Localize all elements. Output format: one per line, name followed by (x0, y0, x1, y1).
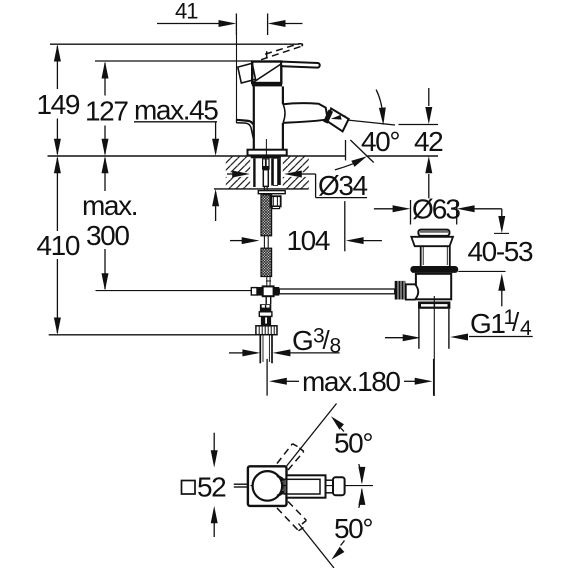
svg-text:149: 149 (37, 89, 80, 120)
dimension 104 (230, 140, 382, 251)
dashed lever down position (277, 502, 306, 531)
ball circle (253, 471, 283, 501)
reference line top (y44) (50, 43, 299, 45)
lower arc (335, 164, 353, 170)
centerline (433, 296, 435, 396)
spout end black band (325, 111, 330, 123)
svg-text:Ø34: Ø34 (318, 170, 368, 201)
T-fitting (251, 286, 279, 304)
washer under counter (258, 191, 285, 194)
left bracket (spray hook) (237, 120, 254, 125)
drain: Ø63 dimension (374, 200, 502, 225)
base flange (248, 150, 287, 156)
dimension 149 (54, 44, 61, 156)
svg-text:42: 42 (414, 126, 443, 157)
faucet handle cap (238, 44, 320, 87)
max300 bottom reference line (96, 290, 253, 292)
dimension max.300 (102, 156, 109, 291)
spray nozzle (327, 109, 349, 132)
reference line handle top (y61) (95, 60, 252, 62)
svg-text:40°: 40° (361, 126, 399, 157)
svg-text:40-53: 40-53 (468, 236, 533, 267)
flange (411, 237, 453, 246)
410 bottom reference line (49, 334, 257, 336)
pop-up linkage rod (279, 289, 394, 294)
slip nut (418, 302, 450, 309)
lever bar (281, 62, 320, 68)
svg-text:max.180: max.180 (302, 366, 400, 397)
gasket under base (251, 155, 281, 158)
dimension 127 (102, 61, 109, 156)
handle black band (252, 83, 282, 86)
mounting surface line (y156) (48, 155, 346, 157)
socket wedges (276, 476, 284, 482)
body centerline (265, 139, 267, 156)
dimension 40-53 (458, 216, 509, 306)
left black bar (253, 158, 255, 187)
side port (406, 284, 418, 299)
dimension max.45 (134, 122, 219, 221)
supply pipe G3/8 (259, 335, 261, 364)
centerline (251, 485, 374, 487)
40 degree annotation (335, 90, 395, 170)
square symbol (182, 481, 196, 495)
dimension 41 (top) (157, 14, 303, 36)
neck (420, 246, 422, 266)
svg-text:8: 8 (330, 335, 341, 358)
label G1 1/4 (385, 334, 533, 342)
knurled knob (395, 281, 406, 300)
lower body (416, 274, 451, 300)
svg-text:50°: 50° (334, 428, 372, 459)
upper arc (376, 90, 383, 120)
spray tab left (234, 483, 248, 485)
svg-text:4: 4 (520, 317, 532, 340)
dimension hole Ø34 (227, 171, 367, 198)
dashed lever up position (277, 444, 304, 470)
lever (top view) (284, 475, 345, 497)
svg-text:/: / (512, 307, 520, 337)
handle tilted-left position (238, 63, 256, 83)
svg-text:410: 410 (37, 230, 80, 261)
spout (283, 103, 328, 123)
50 deg upper (287, 404, 366, 485)
svg-text:50°: 50° (334, 513, 372, 544)
svg-text:max.: max. (82, 190, 137, 221)
pop-up drain assembly (395, 230, 458, 396)
flexible hose (261, 195, 272, 287)
extension line from 41 tick (236, 35, 238, 119)
svg-text:G1: G1 (470, 308, 505, 339)
svg-text:127: 127 (85, 96, 128, 127)
svg-text:104: 104 (287, 225, 330, 256)
svg-text:max.45: max.45 (134, 95, 218, 126)
G 3/8 connector stack (256, 304, 277, 363)
slant line through vertex (350, 140, 373, 163)
mounting slab hatched (214, 157, 309, 189)
shank assembly in counter hole (251, 155, 285, 208)
svg-text:G: G (292, 325, 312, 356)
faucet body (237, 35, 349, 156)
svg-text:Ø63: Ø63 (412, 194, 460, 225)
threaded tube (271, 158, 273, 185)
seal ring (410, 266, 458, 273)
dim 52 vertical arrows (211, 433, 218, 537)
nozzle flow arrow (336, 116, 346, 118)
50 deg lower (299, 488, 366, 568)
label G 3/8 (229, 349, 340, 356)
body square (top view) (248, 466, 287, 506)
spray axis line (347, 120, 395, 125)
tailpipe (418, 309, 420, 349)
dimension 42 (399, 88, 439, 198)
svg-text:300: 300 (86, 220, 129, 251)
svg-text:41: 41 (175, 0, 198, 24)
plug cap (418, 230, 449, 236)
pop-up rod top block (262, 158, 270, 169)
dimension max.180 (267, 359, 434, 396)
mounting nut (271, 196, 281, 206)
svg-text:52: 52 (197, 472, 226, 503)
lever raised position (dashed) (261, 44, 302, 60)
dimension 410 (54, 156, 61, 335)
